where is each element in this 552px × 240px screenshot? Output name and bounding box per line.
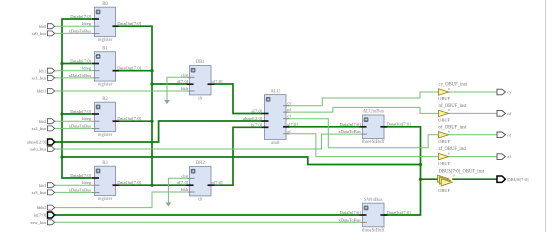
wire R1 DataIn from bus trunk xyxy=(62,63,92,65)
input port xalu_bus xyxy=(48,147,55,152)
junction right trunk / DBUS OBUF feed xyxy=(419,178,422,181)
data register DR1 xyxy=(190,60,212,101)
svg-text:xDataToBus: xDataToBus xyxy=(338,217,361,222)
svg-text:nf: nf xyxy=(287,107,291,112)
svg-text:threeStBuff: threeStBuff xyxy=(362,140,385,145)
svg-text:o: o xyxy=(448,86,450,91)
wire ldr1 to R1 ldreg xyxy=(55,70,92,72)
svg-text:d[7:0]: d[7:0] xyxy=(177,79,188,84)
output port DBUS[7:0] xyxy=(497,176,505,182)
svg-text:lddr: lddr xyxy=(181,86,189,91)
junction right trunk / cross link xyxy=(419,163,422,166)
svg-text:q[7:0]: q[7:0] xyxy=(212,180,223,185)
wire R2 DataIn from bus trunk xyxy=(62,113,92,115)
register R3 xyxy=(95,161,116,202)
svg-text:DataIn[7:0]: DataIn[7:0] xyxy=(340,210,361,215)
svg-text:a[7:0]: a[7:0] xyxy=(252,109,263,114)
svg-text:o: o xyxy=(448,129,450,134)
svg-text:xr0_bus: xr0_bus xyxy=(31,31,46,36)
wire bus trunk to DR1 d input xyxy=(152,83,187,85)
wire cy OBUF output to port xyxy=(449,91,497,93)
svg-text:register: register xyxy=(98,197,113,202)
wire lddr1 to DR1 lddr xyxy=(55,90,187,92)
svg-text:q[7:0]: q[7:0] xyxy=(212,79,223,84)
wire R3 DataOut to bus trunk and DR2 d input xyxy=(119,184,188,186)
svg-text:OBUF: OBUF xyxy=(438,161,450,166)
svg-text:s[7:0]: s[7:0] xyxy=(287,122,298,127)
wire DR1 q to ALU a xyxy=(214,84,262,114)
svg-text:DBUS[7:0]_OBUF_inst: DBUS[7:0]_OBUF_inst xyxy=(439,170,485,175)
svg-text:DataOut[7:0]: DataOut[7:0] xyxy=(117,116,141,121)
wire xr1_bus to R1 xDataToBus xyxy=(55,77,92,79)
ground (DR1 clrn) xyxy=(164,100,170,104)
wire DR2 q to ALU b xyxy=(214,127,262,185)
svg-text:ldreg: ldreg xyxy=(82,66,92,71)
svg-text:cy: cy xyxy=(287,101,292,106)
pins of ALUtoBus xyxy=(338,122,411,135)
svg-text:nf: nf xyxy=(507,111,511,116)
wire ALU zf to OBUF xyxy=(286,134,439,157)
svg-text:xalu_bus: xalu_bus xyxy=(30,147,47,152)
input port xr0_bus xyxy=(48,31,55,36)
input port lddr2 xyxy=(48,205,55,210)
input port xr1_bus xyxy=(48,75,55,80)
wire in[7:0] to SWtoBus DataIn xyxy=(55,214,360,216)
input port ldr0 xyxy=(48,24,55,29)
data register DR2 xyxy=(190,161,212,202)
junction middle trunk / R3 DataOut xyxy=(150,184,153,187)
svg-text:lddr: lddr xyxy=(181,187,189,192)
wire ldr3 to R3 ldreg xyxy=(55,184,92,186)
svg-text:of: of xyxy=(507,132,511,137)
svg-text:R2: R2 xyxy=(102,97,108,102)
wire ALUtoBus DataOut right trunk SWtoBus DataOut xyxy=(384,127,421,215)
wire R0 DataOut to middle bus trunk xyxy=(119,26,153,185)
output buffer zf_OBUF_inst xyxy=(438,147,467,166)
wire of OBUF output to port xyxy=(449,134,497,136)
output port nf xyxy=(497,111,505,117)
svg-text:xr3_bus: xr3_bus xyxy=(31,190,46,195)
pins of R1 xyxy=(69,59,142,78)
svg-text:OBUF: OBUF xyxy=(438,96,450,101)
svg-text:DataIn[7:0]: DataIn[7:0] xyxy=(70,173,91,178)
input port xsw_bus xyxy=(48,220,55,225)
svg-text:o: o xyxy=(448,150,450,155)
wire ALU of to OBUF xyxy=(286,119,439,148)
svg-text:cy: cy xyxy=(507,90,512,95)
wire DBUS OBUF output to port xyxy=(452,178,497,180)
svg-text:R1: R1 xyxy=(102,46,108,51)
wire nf OBUF output to port xyxy=(449,112,497,114)
svg-text:zf: zf xyxy=(507,154,511,159)
output port of xyxy=(497,132,505,138)
svg-text:DataOut[7:0]: DataOut[7:0] xyxy=(117,21,141,26)
window frame line xyxy=(545,0,547,232)
register R0 xyxy=(95,2,116,43)
svg-text:DBUS[7:0]: DBUS[7:0] xyxy=(507,177,529,182)
svg-text:xDataToBus: xDataToBus xyxy=(69,73,92,78)
svg-text:alusel[2:0]: alusel[2:0] xyxy=(243,116,263,121)
wire alusel[2:0] to ALU xyxy=(55,121,262,142)
svg-text:nf_OBUF_inst: nf_OBUF_inst xyxy=(439,104,468,109)
junction middle trunk / R2 DataOut xyxy=(150,120,153,123)
input port ldr1 xyxy=(48,68,55,73)
svg-text:lddr1: lddr1 xyxy=(37,89,47,94)
pins of R3 xyxy=(69,173,142,192)
svg-text:cy_OBUF_inst: cy_OBUF_inst xyxy=(439,83,468,88)
svg-text:xDataToBus: xDataToBus xyxy=(69,123,92,128)
svg-text:lddr2: lddr2 xyxy=(37,205,47,210)
wire zf OBUF output to port xyxy=(449,156,497,158)
svg-text:ldreg: ldreg xyxy=(82,116,92,121)
output port zf xyxy=(497,154,505,160)
svg-text:zf: zf xyxy=(287,129,291,134)
wire ldr2 to R2 ldreg xyxy=(55,120,92,122)
svg-text:xsw_bus: xsw_bus xyxy=(30,220,46,225)
output buffer DBUS[7:0]_OBUF_inst (bus of stacked OBUFs) xyxy=(438,170,485,193)
svg-text:o: o xyxy=(453,173,455,178)
svg-text:DataOut[7:0]: DataOut[7:0] xyxy=(387,210,411,215)
svg-text:ldr0: ldr0 xyxy=(39,24,47,29)
wire xalu_bus to ALUtoBus xDataToBus xyxy=(55,134,360,149)
svg-text:alu8: alu8 xyxy=(271,141,280,146)
svg-text:OBUF: OBUF xyxy=(438,188,450,193)
svg-text:DataIn[7:0]: DataIn[7:0] xyxy=(340,122,361,127)
svg-text:DataIn[7:0]: DataIn[7:0] xyxy=(70,109,91,114)
pins of ALU xyxy=(243,101,298,134)
svg-text:ldr2: ldr2 xyxy=(39,119,47,124)
input port in[7:0] xyxy=(48,212,55,218)
svg-text:ldr3: ldr3 xyxy=(39,183,47,188)
output buffer of_OBUF_inst xyxy=(438,125,467,144)
wire xr3_bus to R3 xDataToBus xyxy=(55,191,92,193)
output buffer nf_OBUF_inst xyxy=(438,104,467,123)
wire bus cross link to right trunk xyxy=(62,157,421,165)
wire right trunk to DBUS OBUF input xyxy=(421,178,439,180)
svg-text:ALUtoBus: ALUtoBus xyxy=(363,110,384,115)
input port alusel[2:0] xyxy=(48,139,55,145)
input port ldr3 xyxy=(48,183,55,188)
svg-text:register: register xyxy=(98,133,113,138)
wire DR2 clrn to ground xyxy=(168,178,187,202)
svg-text:d[7:0]: d[7:0] xyxy=(177,180,188,185)
svg-text:DR2: DR2 xyxy=(196,161,206,166)
wire ALU s to ALUtoBus DataIn xyxy=(286,126,360,128)
input port xr3_bus xyxy=(48,190,55,195)
register R2 xyxy=(95,97,116,138)
register R1 xyxy=(95,46,116,87)
junction bus trunk / R1 DataIn xyxy=(60,62,63,65)
svg-text:DataOut[7:0]: DataOut[7:0] xyxy=(387,122,411,127)
wire DR1 clrn to ground xyxy=(167,77,187,100)
wire lddr2 to DR2 lddr xyxy=(55,192,187,208)
pins of DR2 xyxy=(177,173,223,192)
svg-text:ldr1: ldr1 xyxy=(39,68,47,73)
svg-text:R0: R0 xyxy=(102,2,108,7)
svg-text:clrn: clrn xyxy=(181,173,189,178)
input port lddr1 xyxy=(48,89,55,94)
svg-text:DataOut[7:0]: DataOut[7:0] xyxy=(117,180,141,185)
svg-text:DataIn[7:0]: DataIn[7:0] xyxy=(70,59,91,64)
ALU alu8 xyxy=(265,89,287,146)
svg-text:OBUF: OBUF xyxy=(438,118,450,123)
junction middle trunk / DR1 d xyxy=(150,82,153,85)
svg-text:dr: dr xyxy=(198,198,202,203)
svg-text:SWtoBus: SWtoBus xyxy=(364,198,383,203)
junction bus trunk / R2 DataIn xyxy=(60,112,63,115)
wire xr2_bus to R2 xDataToBus xyxy=(55,127,92,129)
wire ALU nf to OBUF xyxy=(286,107,439,113)
pins of DR1 xyxy=(177,72,223,91)
svg-text:DataIn[7:0]: DataIn[7:0] xyxy=(70,14,91,19)
svg-text:ldreg: ldreg xyxy=(82,180,92,185)
svg-text:xDataToBus: xDataToBus xyxy=(69,187,92,192)
svg-text:DataOut[7:0]: DataOut[7:0] xyxy=(117,66,141,71)
wire: bus left trunk with R0 and R3 DataIn feeds xyxy=(62,19,92,178)
svg-text:register: register xyxy=(98,83,113,88)
output buffer cy_OBUF_inst xyxy=(438,83,467,102)
input port xr2_bus xyxy=(48,126,55,131)
pins of R0 xyxy=(69,14,142,33)
svg-text:clrn: clrn xyxy=(181,72,189,77)
svg-text:ldreg: ldreg xyxy=(82,21,92,26)
ground (DR2 clrn) xyxy=(166,203,172,207)
junction bus trunk / cross link xyxy=(60,155,63,158)
svg-text:xDataToBus: xDataToBus xyxy=(69,28,92,33)
wire ldr0 to R0 ldreg xyxy=(55,25,92,27)
junction middle trunk / R1 DataOut xyxy=(150,69,153,72)
svg-text:o: o xyxy=(448,107,450,112)
wire R2 DataOut to bus trunk xyxy=(119,120,153,122)
input port ldr2 xyxy=(48,119,55,124)
wire xsw_bus to SWtoBus xDataToBus xyxy=(55,221,360,223)
svg-text:alusel[2:0]: alusel[2:0] xyxy=(27,140,47,145)
pins of SWtoBus xyxy=(338,210,411,223)
svg-text:R3: R3 xyxy=(102,161,108,166)
wire ALU cy to OBUF xyxy=(286,92,439,106)
svg-text:b[7:0]: b[7:0] xyxy=(251,122,262,127)
svg-text:register: register xyxy=(98,38,113,43)
svg-text:of: of xyxy=(287,114,291,119)
svg-text:ALU: ALU xyxy=(270,89,280,94)
svg-text:dr: dr xyxy=(198,97,202,102)
output port cy xyxy=(497,89,505,95)
wire R1 DataOut to bus trunk xyxy=(119,70,153,72)
svg-text:zf_OBUF_inst: zf_OBUF_inst xyxy=(439,147,467,152)
svg-text:xDataToBus: xDataToBus xyxy=(338,129,361,134)
pins of R2 xyxy=(69,109,142,128)
wire xr0_bus to R0 xDataToBus xyxy=(55,32,92,34)
svg-text:xr2_bus: xr2_bus xyxy=(31,126,46,131)
svg-text:threeStBuff: threeStBuff xyxy=(362,228,385,232)
svg-text:xr1_bus: xr1_bus xyxy=(31,76,46,81)
svg-text:OBUF: OBUF xyxy=(438,139,450,144)
three-state buffer ALUtoBus xyxy=(362,110,385,146)
svg-text:in[7:0]: in[7:0] xyxy=(34,213,47,218)
svg-text:of_OBUF_inst: of_OBUF_inst xyxy=(439,125,468,130)
svg-text:DR1: DR1 xyxy=(196,60,206,65)
three-state buffer SWtoBus xyxy=(362,198,385,234)
